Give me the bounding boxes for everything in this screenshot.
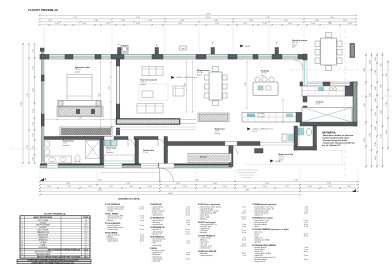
svg-text:2.60: 2.60 bbox=[33, 88, 35, 92]
svg-text:21.80: 21.80 bbox=[168, 193, 173, 195]
storage room with X bbox=[302, 108, 352, 123]
svg-text:1.60: 1.60 bbox=[288, 23, 292, 25]
svg-text:parket: parket bbox=[141, 83, 146, 86]
spec text column C bbox=[198, 203, 247, 257]
svg-text:2.180: 2.180 bbox=[206, 13, 211, 15]
svg-text:Terasa: Terasa bbox=[200, 157, 208, 159]
svg-text:LEGENDA SLOJEVA:: LEGENDA SLOJEVA: bbox=[118, 198, 140, 201]
room label blagovaona bbox=[197, 70, 210, 76]
svg-text:- kamena vuna: - kamena vuna bbox=[152, 252, 162, 254]
terrace east wall bbox=[229, 146, 233, 167]
svg-text:2.20: 2.20 bbox=[370, 133, 372, 136]
svg-text:0.5 cm: 0.5 cm bbox=[185, 210, 190, 212]
svg-text:1.60: 1.60 bbox=[381, 63, 383, 66]
svg-text:1.40: 1.40 bbox=[263, 23, 267, 25]
svg-text:1.30: 1.30 bbox=[311, 23, 315, 25]
armchair bbox=[173, 86, 184, 96]
bedroom south wall bbox=[44, 127, 168, 140]
svg-text:- gips ploče 2x: - gips ploče 2x bbox=[152, 233, 162, 235]
svg-text:1.20: 1.20 bbox=[375, 142, 377, 145]
svg-text:3.30: 3.30 bbox=[94, 20, 98, 22]
svg-text:1.60: 1.60 bbox=[381, 134, 383, 137]
svg-text:1.25: 1.25 bbox=[285, 186, 289, 188]
svg-text:20 cm: 20 cm bbox=[186, 254, 191, 256]
svg-text:- blok opeka: - blok opeka bbox=[152, 222, 161, 224]
terrace bench hatched bbox=[188, 154, 232, 163]
svg-text:2.60: 2.60 bbox=[364, 103, 366, 106]
svg-text:25 cm: 25 cm bbox=[304, 255, 309, 257]
section marker A bbox=[40, 178, 47, 181]
svg-text:- gips ploče na p.k.: - gips ploče na p.k. bbox=[200, 246, 214, 248]
svg-text:0.75: 0.75 bbox=[165, 186, 169, 188]
svg-text:keramika: keramika bbox=[63, 145, 70, 147]
svg-text:11.90: 11.90 bbox=[21, 102, 23, 106]
terrace table bbox=[315, 33, 342, 71]
svg-text:2.5 cm: 2.5 cm bbox=[185, 229, 190, 231]
svg-text:parket: parket bbox=[197, 73, 202, 76]
room label terasa bbox=[200, 157, 208, 159]
svg-text:0.3 cm: 0.3 cm bbox=[185, 214, 190, 216]
svg-text:0.80: 0.80 bbox=[33, 157, 35, 161]
outdoor fixtures bbox=[282, 134, 294, 141]
totals rows bbox=[17, 259, 91, 264]
svg-text:3.40: 3.40 bbox=[214, 20, 218, 22]
svg-text:2.20: 2.20 bbox=[82, 23, 86, 25]
bedroom interior dim bbox=[43, 118, 116, 121]
svg-text:A: A bbox=[45, 178, 47, 181]
svg-text:2.40: 2.40 bbox=[386, 130, 388, 133]
level marker -0.02 terrace bbox=[270, 160, 281, 163]
svg-text:20 cm: 20 cm bbox=[304, 233, 309, 235]
svg-text:10 cm: 10 cm bbox=[304, 259, 309, 261]
svg-text:+0.15: +0.15 bbox=[252, 131, 258, 133]
svg-text:10 cm: 10 cm bbox=[242, 244, 247, 246]
svg-text:1.5 cm: 1.5 cm bbox=[139, 206, 144, 208]
svg-text:3.30: 3.30 bbox=[27, 145, 29, 149]
column markers on top wall bbox=[118, 43, 279, 55]
bathtub/wc left bbox=[45, 141, 50, 155]
svg-text:6.10: 6.10 bbox=[98, 180, 102, 182]
svg-text:TLOCRT PRIZEMLJA: TLOCRT PRIZEMLJA bbox=[44, 213, 66, 216]
interior wall bedroom/living bbox=[116, 59, 119, 135]
svg-text:3.65: 3.65 bbox=[195, 180, 199, 182]
svg-text:2.98: 2.98 bbox=[78, 118, 81, 120]
bottom exterior wall bbox=[40, 164, 232, 169]
svg-text:3.30: 3.30 bbox=[178, 23, 182, 25]
svg-text:12 cm: 12 cm bbox=[242, 224, 247, 226]
exterior steps bbox=[236, 170, 258, 178]
sofa bottom bbox=[137, 104, 163, 114]
svg-text:0.90: 0.90 bbox=[375, 98, 377, 101]
svg-text:parket: parket bbox=[75, 70, 80, 73]
svg-text:0.3 cm: 0.3 cm bbox=[185, 258, 190, 260]
svg-text:6.20: 6.20 bbox=[294, 180, 298, 182]
svg-text:1.40: 1.40 bbox=[33, 49, 35, 53]
note block NAPOMENA bbox=[322, 132, 355, 148]
svg-text:1.10: 1.10 bbox=[375, 112, 377, 115]
entry door swing bbox=[160, 168, 174, 182]
svg-text:4-8 cm: 4-8 cm bbox=[241, 217, 246, 219]
kitchen island bbox=[253, 77, 278, 96]
svg-text:kamen: kamen bbox=[215, 133, 220, 135]
svg-text:3.20: 3.20 bbox=[185, 83, 187, 86]
section marker right bbox=[352, 189, 356, 192]
svg-text:3.50: 3.50 bbox=[284, 20, 288, 22]
svg-text:drvo: drvo bbox=[292, 47, 296, 49]
wing counter bbox=[302, 86, 353, 96]
wc bbox=[75, 155, 80, 164]
planter low wall (living room south) bbox=[116, 119, 196, 130]
room label kupaonica bbox=[63, 141, 75, 147]
sideboard bench bbox=[198, 113, 229, 122]
svg-text:2.00: 2.00 bbox=[348, 23, 352, 25]
kitchen counter bbox=[242, 113, 302, 123]
svg-text:- nabijeni šljunak: - nabijeni šljunak bbox=[107, 241, 119, 243]
wardrobe 1 bbox=[57, 107, 103, 117]
svg-text:1.00: 1.00 bbox=[106, 23, 110, 25]
svg-text:- PE folija: - PE folija bbox=[107, 210, 114, 212]
svg-text:2.00: 2.00 bbox=[328, 23, 332, 25]
svg-text:1.80: 1.80 bbox=[176, 183, 180, 185]
spec text column A bbox=[105, 203, 145, 242]
hall south wall bbox=[167, 142, 260, 146]
drawing title TLOCRT PRIZEMLJA bbox=[28, 8, 59, 12]
interior dim lines bbox=[101, 62, 284, 128]
spec text column B bbox=[150, 203, 191, 262]
svg-text:2.98: 2.98 bbox=[66, 183, 70, 185]
svg-text:3.20: 3.20 bbox=[126, 183, 130, 185]
svg-text:10 cm: 10 cm bbox=[140, 239, 145, 241]
svg-text:1.00: 1.00 bbox=[328, 186, 332, 188]
svg-text:25 cm: 25 cm bbox=[186, 208, 191, 210]
svg-text:1.60: 1.60 bbox=[243, 23, 247, 25]
dining table bbox=[205, 67, 228, 106]
svg-text:2.20: 2.20 bbox=[386, 73, 388, 76]
svg-text:1.50: 1.50 bbox=[33, 146, 35, 150]
svg-text:10 cm: 10 cm bbox=[140, 216, 145, 218]
right wing walls bbox=[294, 54, 357, 126]
headboard and nightstands bbox=[58, 101, 101, 107]
svg-text:-0.02: -0.02 bbox=[275, 161, 281, 163]
svg-text:0.90: 0.90 bbox=[347, 186, 351, 188]
svg-text:20 cm: 20 cm bbox=[242, 239, 247, 241]
svg-text:30 cm: 30 cm bbox=[304, 235, 309, 237]
svg-text:20 cm: 20 cm bbox=[140, 241, 145, 243]
svg-text:15 cm: 15 cm bbox=[140, 220, 145, 222]
svg-text:- blok opeka: - blok opeka bbox=[152, 208, 161, 210]
svg-text:2.90: 2.90 bbox=[245, 82, 247, 85]
svg-text:6.0 cm: 6.0 cm bbox=[139, 208, 144, 210]
canopy line bbox=[100, 172, 160, 174]
svg-text:- lim. opšav u padu: - lim. opšav u padu bbox=[152, 250, 165, 252]
svg-text:- vapnena žbuka: - vapnena žbuka bbox=[152, 220, 164, 222]
svg-text:1.00: 1.00 bbox=[375, 86, 377, 89]
svg-text:2.00: 2.00 bbox=[213, 183, 217, 185]
svg-text:5.60: 5.60 bbox=[330, 17, 334, 19]
shower bbox=[86, 141, 100, 159]
svg-text:7.20: 7.20 bbox=[27, 93, 29, 97]
svg-text:- šljunak: - šljunak bbox=[254, 226, 260, 228]
laundry counter bbox=[104, 155, 134, 161]
svg-text:1.00: 1.00 bbox=[375, 126, 377, 129]
svg-text:1.20: 1.20 bbox=[370, 60, 372, 63]
svg-text:1.00: 1.00 bbox=[243, 186, 247, 188]
svg-text:1.00: 1.00 bbox=[33, 133, 35, 137]
rug bbox=[139, 84, 168, 100]
svg-text:- vapnena žbuka: - vapnena žbuka bbox=[152, 224, 164, 226]
room label vanjska terasa bbox=[292, 39, 308, 49]
svg-text:- vapnena žbuka: - vapnena žbuka bbox=[152, 206, 164, 208]
room label dnevni boravak bbox=[141, 80, 158, 86]
svg-text:1.20: 1.20 bbox=[33, 122, 35, 126]
svg-text:2.05: 2.05 bbox=[48, 20, 52, 22]
svg-text:3.00: 3.00 bbox=[343, 20, 347, 22]
bottom dimension chains bbox=[40, 182, 358, 195]
svg-text:0.90: 0.90 bbox=[129, 186, 133, 188]
outdoor bath bbox=[294, 126, 317, 150]
svg-text:3.60: 3.60 bbox=[249, 20, 253, 22]
level marker +0.15 living bbox=[171, 76, 198, 79]
svg-text:TLOCRT PRIZEMLJA: TLOCRT PRIZEMLJA bbox=[28, 8, 59, 12]
svg-text:gres: gres bbox=[261, 75, 265, 77]
bottom witness lines bbox=[40, 170, 358, 180]
svg-text:1.05: 1.05 bbox=[183, 186, 187, 188]
axis dashed lines bbox=[10, 30, 392, 178]
svg-text:15 cm: 15 cm bbox=[140, 237, 145, 239]
svg-text:20 cm: 20 cm bbox=[242, 219, 247, 221]
svg-text:2.20: 2.20 bbox=[215, 23, 219, 25]
svg-text:1.00: 1.00 bbox=[148, 186, 152, 188]
svg-text:1.00: 1.00 bbox=[375, 156, 377, 159]
svg-text:1.25 cm: 1.25 cm bbox=[240, 246, 246, 248]
svg-text:3.10: 3.10 bbox=[148, 20, 152, 22]
svg-text:30 cm: 30 cm bbox=[304, 251, 309, 253]
svg-text:1.90: 1.90 bbox=[33, 66, 35, 70]
svg-text:-0.02: -0.02 bbox=[245, 46, 251, 48]
svg-text:1.00: 1.00 bbox=[263, 186, 267, 188]
svg-text:+0.15 = +89.70 m n.v.: +0.15 = +89.70 m n.v. bbox=[176, 77, 198, 79]
svg-text:- OSB ploče: - OSB ploče bbox=[200, 230, 208, 232]
svg-text:0.95: 0.95 bbox=[203, 186, 207, 188]
svg-text:7.10: 7.10 bbox=[266, 17, 270, 19]
svg-text:2.20: 2.20 bbox=[386, 102, 388, 105]
sofa top bbox=[142, 67, 163, 76]
svg-text:5.5 cm: 5.5 cm bbox=[139, 229, 144, 231]
room schedule table bbox=[20, 213, 90, 259]
entry mat bbox=[255, 149, 264, 154]
svg-text:1.50: 1.50 bbox=[33, 109, 35, 113]
svg-text:2.4 cm: 2.4 cm bbox=[303, 220, 308, 222]
svg-text:10 cm: 10 cm bbox=[304, 224, 309, 226]
svg-text:ker. pl. Glinkolit 75: ker. pl. Glinkolit 75 bbox=[322, 144, 341, 147]
room label stubiste bbox=[215, 128, 226, 135]
svg-text:0.90: 0.90 bbox=[47, 186, 51, 188]
vanity bbox=[45, 156, 72, 163]
svg-text:2.80: 2.80 bbox=[136, 23, 140, 25]
svg-text:12 cm: 12 cm bbox=[186, 222, 191, 224]
svg-text:- nasip: - nasip bbox=[254, 235, 259, 237]
svg-text:1.5 cm: 1.5 cm bbox=[139, 225, 144, 227]
svg-text:2.20: 2.20 bbox=[121, 20, 125, 22]
svg-text:20 cm: 20 cm bbox=[242, 212, 247, 214]
room label vesernica bbox=[106, 147, 117, 154]
svg-text:- humus: - humus bbox=[254, 233, 260, 235]
wardrobe 2 bbox=[60, 127, 112, 136]
room label radna soba bbox=[279, 153, 294, 163]
terrace edge bbox=[260, 126, 299, 146]
room label garderoba bbox=[143, 150, 155, 154]
svg-text:- min. vuna: - min. vuna bbox=[200, 244, 208, 246]
svg-text:3.2 m²: 3.2 m² bbox=[143, 151, 148, 154]
svg-text:1.10: 1.10 bbox=[67, 186, 71, 188]
svg-text:3.40: 3.40 bbox=[180, 20, 184, 22]
svg-text:1.00: 1.00 bbox=[308, 186, 312, 188]
svg-text:12.00: 12.00 bbox=[98, 189, 103, 191]
svg-text:1.80: 1.80 bbox=[381, 84, 383, 87]
svg-text:5.30: 5.30 bbox=[136, 17, 140, 19]
witness lines bbox=[44, 27, 340, 53]
level marker -0.02 bbox=[240, 45, 251, 48]
svg-text:0.60: 0.60 bbox=[375, 57, 377, 60]
svg-text:1.40: 1.40 bbox=[375, 70, 377, 73]
svg-text:20 cm: 20 cm bbox=[242, 253, 247, 255]
svg-text:2.2 cm: 2.2 cm bbox=[241, 230, 246, 232]
bbq wall bbox=[350, 44, 355, 58]
svg-text:1.00: 1.00 bbox=[88, 186, 92, 188]
svg-text:6.95: 6.95 bbox=[245, 189, 249, 191]
top dimension chains bbox=[39, 15, 357, 26]
svg-text:- kamena vuna: - kamena vuna bbox=[152, 212, 162, 214]
svg-text:2.60: 2.60 bbox=[315, 20, 319, 22]
svg-text:12 cm: 12 cm bbox=[186, 212, 191, 214]
svg-text:10 cm: 10 cm bbox=[304, 212, 309, 214]
svg-text:1.60: 1.60 bbox=[55, 23, 59, 25]
svg-text:NAZIV PROSTORIJE: NAZIV PROSTORIJE bbox=[34, 216, 53, 219]
room label spavaca soba bbox=[75, 67, 90, 73]
svg-text:7.5 cm: 7.5 cm bbox=[185, 231, 190, 233]
svg-text:2.65: 2.65 bbox=[109, 86, 111, 89]
coffee table bbox=[142, 91, 153, 98]
svg-text:6.4 m²: 6.4 m² bbox=[316, 103, 321, 106]
svg-text:3.20: 3.20 bbox=[265, 183, 269, 185]
right dimension chains bbox=[366, 52, 388, 168]
terrace edge dashed bbox=[245, 151, 345, 165]
spec text column D bbox=[252, 203, 309, 263]
level marker +0.15 kitchen bbox=[247, 128, 274, 134]
svg-text:- XPS: - XPS bbox=[152, 243, 156, 245]
svg-text:- vapnena žbuka: - vapnena žbuka bbox=[200, 237, 212, 239]
svg-text:2.90: 2.90 bbox=[327, 183, 331, 185]
top exterior wall bbox=[40, 55, 307, 60]
left exterior wall bbox=[40, 48, 44, 164]
washer dryer bbox=[105, 140, 118, 146]
bed bbox=[67, 75, 92, 101]
svg-text:30 cm: 30 cm bbox=[242, 232, 247, 234]
room label ostava bbox=[316, 101, 324, 106]
bathroom walls bbox=[100, 140, 168, 164]
svg-text:1.10: 1.10 bbox=[109, 186, 113, 188]
svg-text:4.55: 4.55 bbox=[99, 93, 101, 96]
interior doors bbox=[128, 140, 238, 155]
svg-text:1.00: 1.00 bbox=[223, 186, 227, 188]
svg-text:- gips ploče 2x: - gips ploče 2x bbox=[152, 229, 162, 231]
svg-text:2.130: 2.130 bbox=[206, 17, 211, 19]
svg-text:15 cm: 15 cm bbox=[304, 226, 309, 228]
svg-text:7.25: 7.25 bbox=[73, 17, 77, 19]
svg-text:keramika: keramika bbox=[106, 152, 113, 154]
svg-text:2.5 cm: 2.5 cm bbox=[185, 233, 190, 235]
svg-text:- pijesak 4-8 mm: - pijesak 4-8 mm bbox=[254, 249, 266, 251]
svg-text:2.00: 2.00 bbox=[381, 110, 383, 113]
legend title bbox=[118, 198, 140, 201]
room label kuhinja bbox=[261, 71, 270, 77]
left dimension chains bbox=[23, 44, 35, 163]
svg-text:1.80: 1.80 bbox=[364, 138, 366, 141]
